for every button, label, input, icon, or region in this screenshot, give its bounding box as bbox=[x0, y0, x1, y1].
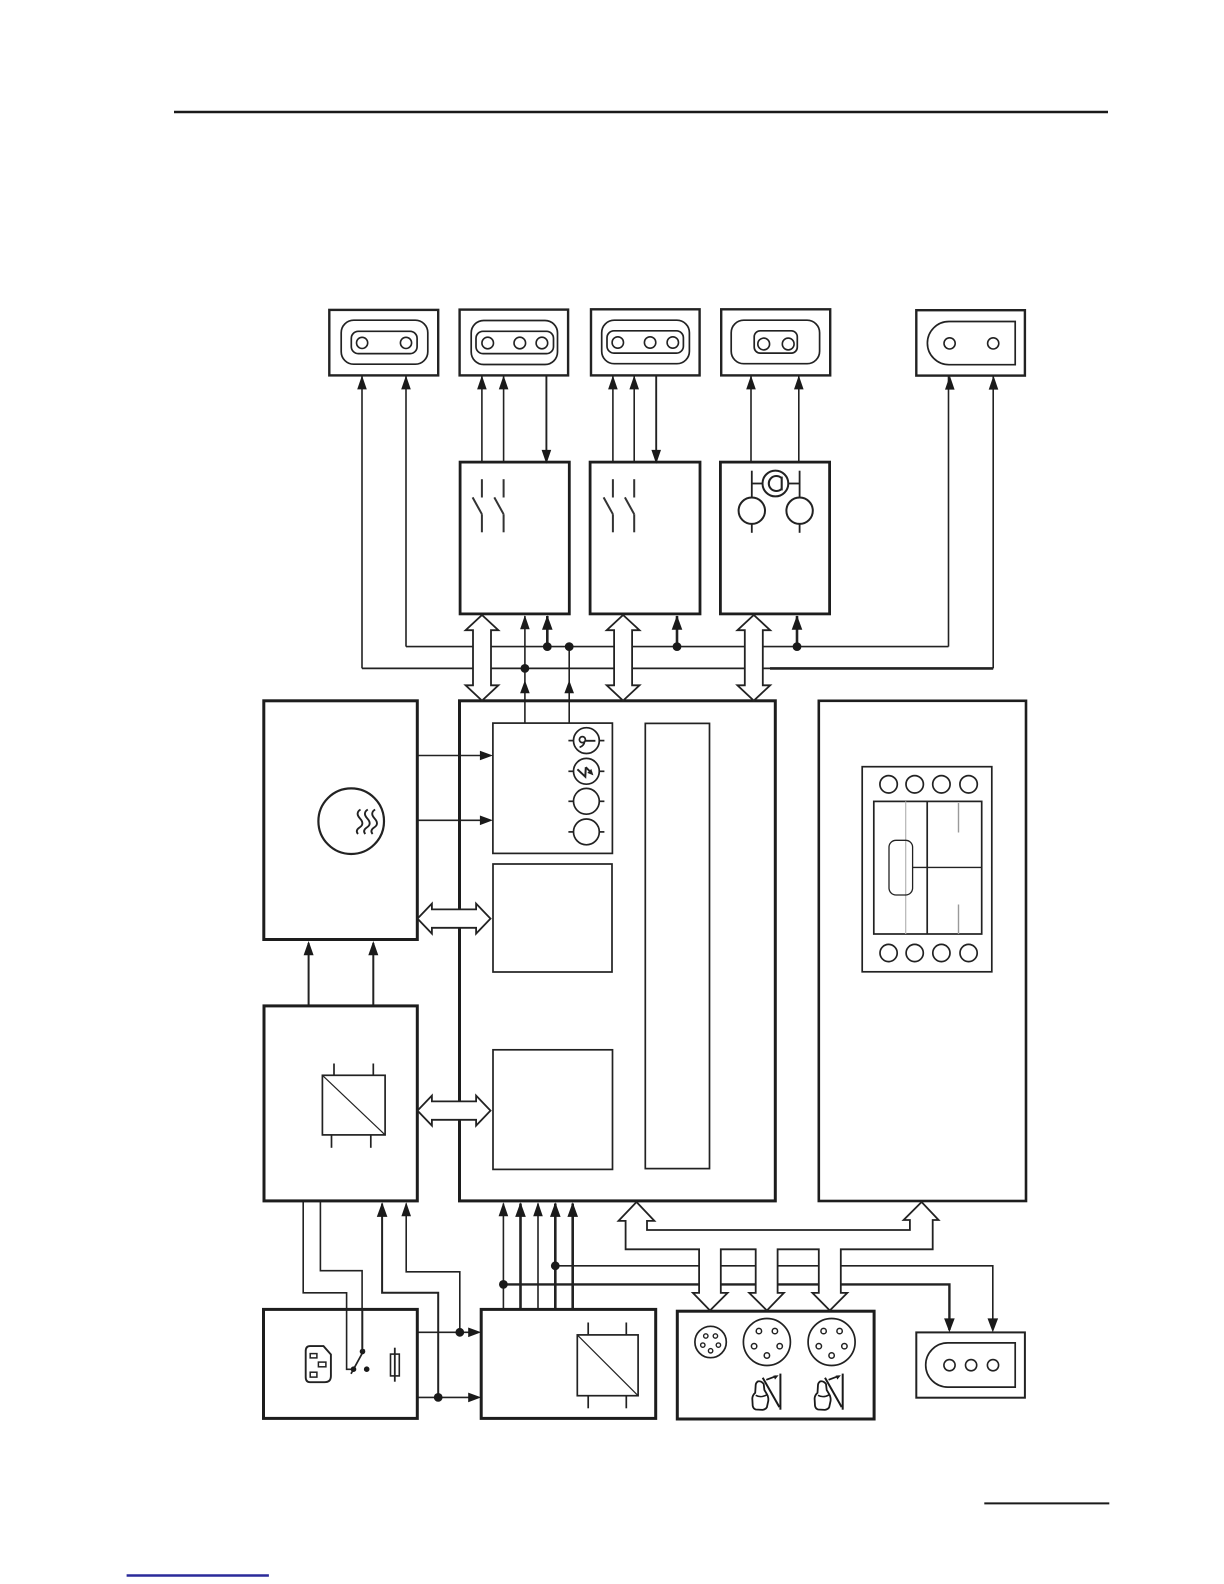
arrow into J4 pin 2 bbox=[794, 375, 804, 389]
bus line 1 bbox=[406, 646, 949, 648]
hollow arrow harness control board / interface / pedal sockets bbox=[619, 1202, 939, 1311]
junction dots bbox=[434, 642, 802, 1402]
node bus1 / relay B bbox=[673, 642, 682, 651]
node mains B branch bbox=[434, 1393, 443, 1402]
wire power supply to control board 5 bbox=[571, 1204, 574, 1310]
heater unit box bbox=[264, 701, 418, 940]
wire heater unit to control board input 1 bbox=[417, 755, 487, 757]
IEC inlet connector bbox=[306, 1346, 331, 1382]
DIN socket small bbox=[695, 1326, 726, 1357]
hollow arrow relay B / control board bbox=[607, 615, 640, 701]
processor column box bbox=[645, 723, 709, 1168]
transformer T1 bbox=[322, 1064, 385, 1148]
wire connector J1 right pin to bus 1 bbox=[405, 375, 407, 646]
arrow into J5 pin 1 bbox=[945, 376, 955, 390]
wire transformer box to heater unit 2 bbox=[372, 943, 374, 1006]
switch contact B1 bbox=[604, 479, 613, 532]
wire bus 1 to motor box C bbox=[796, 616, 799, 647]
transformer T2 bbox=[577, 1323, 638, 1409]
circuit breaker drawing bbox=[862, 767, 992, 972]
wire transformer box to mains switch line 1 bbox=[303, 1201, 351, 1369]
arrow into J2 pin 1 bbox=[477, 375, 487, 389]
arrow into J5 pin 2 bbox=[989, 376, 999, 390]
connector J4 bbox=[721, 309, 830, 375]
switch contact A1 bbox=[473, 479, 482, 532]
arrow into transformer box bottom bold bbox=[377, 1202, 388, 1217]
interface board box bbox=[819, 701, 1026, 1201]
mains inlet box bbox=[264, 1309, 418, 1418]
bus line 2 bbox=[362, 667, 770, 669]
arrow into J3 pin 2 bbox=[629, 375, 639, 389]
wire bus 1 to relay box B bbox=[676, 616, 679, 647]
motor M with rotation symbol bbox=[763, 471, 789, 497]
pedal icon 2 bbox=[815, 1374, 843, 1410]
wire mains feed to transformer box branch A bbox=[406, 1204, 460, 1333]
arrow into power supply line B bbox=[468, 1393, 481, 1403]
node bus1 / motor box bbox=[793, 642, 802, 651]
sensor circle spare 2 bbox=[568, 819, 604, 845]
arrow into sensor board input 2 bbox=[480, 816, 493, 826]
node bus1 / relay A bbox=[543, 642, 552, 651]
node bus2 / board line bbox=[521, 664, 530, 673]
arrow at bus2 sense left bbox=[520, 680, 530, 693]
lamp L1 bbox=[739, 471, 765, 533]
control board box bbox=[460, 701, 776, 1201]
connector J2 bbox=[460, 310, 568, 376]
wire bus 1 to relay box A pin 2 bbox=[546, 616, 549, 647]
connector J3 bbox=[591, 309, 700, 375]
motor box C bbox=[720, 462, 829, 614]
sensor circle defrost bbox=[568, 758, 604, 784]
memory sub-board bbox=[493, 864, 612, 972]
connector J1 bbox=[329, 310, 438, 376]
wire motor box C to connector J4 pin 2 bbox=[798, 375, 800, 462]
DIN socket right bbox=[808, 1319, 855, 1366]
arrow into relay A top bbox=[542, 450, 552, 464]
hollow arrow motor box / control board bbox=[737, 615, 770, 701]
arrow into control board bottom 4 bbox=[550, 1202, 561, 1217]
arrow into output connector left bbox=[944, 1318, 955, 1332]
wire control board to relay box A pin 1 bbox=[524, 616, 526, 723]
wire relay box B to connector J3 pin 1 bbox=[612, 375, 614, 462]
arrow into heater bottom 2 bbox=[368, 941, 378, 955]
arrow into motor box bottom bbox=[792, 615, 803, 630]
wire heater unit to control board input 2 bbox=[417, 819, 487, 821]
page footer line right bbox=[984, 1502, 1109, 1504]
arrow into relay B top bbox=[651, 450, 661, 464]
arrow into control board bottom 3 bbox=[533, 1202, 543, 1216]
sensor circle spare 1 bbox=[568, 788, 604, 814]
node mains A branch bbox=[455, 1328, 464, 1337]
wire mains feed to transformer box branch B bbox=[382, 1204, 438, 1398]
node bus1 / board sense bbox=[565, 642, 574, 651]
fuse F1 bbox=[391, 1348, 400, 1382]
arrow into transformer box bottom thin bbox=[401, 1202, 411, 1216]
wire motor box C to connector J4 pin 1 bbox=[750, 375, 752, 462]
arrow into J2 pin 2 bbox=[499, 375, 509, 389]
wire power supply to control board 4 bbox=[554, 1204, 557, 1310]
wire power supply to control board 1 bbox=[502, 1204, 504, 1310]
arrow into control board bottom 5 bbox=[567, 1202, 578, 1217]
relay box B bbox=[590, 462, 700, 614]
arrow into output connector right bbox=[988, 1318, 999, 1332]
arrow into J3 pin 1 bbox=[608, 375, 618, 389]
power supply box bbox=[481, 1309, 656, 1418]
relay box A bbox=[460, 462, 569, 614]
io sub-board bbox=[493, 1050, 613, 1170]
wire relay box B to connector J3 pin 2 bbox=[633, 375, 635, 462]
wire connector J2 pin 3 into relay box A bbox=[545, 375, 547, 462]
wire bus 2 to connector J5 right pin bbox=[992, 376, 994, 669]
wire mains line B to power supply bbox=[417, 1396, 477, 1398]
node supply branch right bbox=[551, 1261, 560, 1270]
arrow into relay A bottom 2 bbox=[542, 615, 553, 630]
arrow at bus2 sense right bbox=[564, 680, 574, 693]
wire transformer box to heater unit 1 bbox=[308, 943, 310, 1006]
wire connector J3 pin 3 into relay box B bbox=[655, 375, 657, 462]
arrow into relay B bottom bbox=[672, 615, 683, 630]
pedal icon 1 bbox=[752, 1374, 780, 1410]
switch contact A2 bbox=[494, 479, 503, 532]
lamp L2 bbox=[786, 471, 812, 533]
page header rule bbox=[174, 111, 1108, 114]
arrow into power supply line A bbox=[468, 1328, 481, 1338]
wire power supply to control board 3 bbox=[537, 1204, 539, 1310]
arrow into J1 pin 1 bbox=[357, 375, 367, 389]
heater symbol bbox=[318, 788, 384, 854]
arrow into control board bottom 1 bbox=[499, 1202, 509, 1216]
arrow into control board bottom 2 bbox=[515, 1202, 526, 1217]
transformer box bbox=[264, 1006, 417, 1201]
hollow arrow relay A / control board bbox=[466, 615, 499, 701]
wire bus 1 to connector J5 left pin bbox=[948, 376, 950, 647]
hollow arrow heater / memory board bbox=[418, 904, 491, 934]
arrow into sensor board input 1 bbox=[480, 751, 493, 761]
wire supply branch to output connector right pin bbox=[555, 1266, 993, 1330]
output connector box bbox=[916, 1332, 1025, 1397]
wire transformer box to mains switch line 2 bbox=[320, 1201, 362, 1352]
wire power supply to control board 2 bbox=[519, 1204, 522, 1310]
DIN socket middle bbox=[743, 1319, 790, 1366]
sensor circle temperature bbox=[568, 728, 604, 754]
wire relay box A to connector J2 pin 2 bbox=[503, 375, 505, 462]
connector J5 bbox=[916, 310, 1025, 375]
switch contact B2 bbox=[625, 479, 634, 532]
wire supply branch to output connector left pin bbox=[503, 1284, 949, 1330]
wire bus 1 to control board sense line bbox=[568, 647, 570, 724]
hollow arrow transformer box / io board bbox=[418, 1096, 491, 1126]
arrow into J4 pin 1 bbox=[746, 375, 756, 389]
pedal sockets box bbox=[677, 1311, 874, 1419]
arrow into relay A bottom 1 bbox=[520, 615, 530, 629]
wire connector J1 left pin to bus 2 bbox=[361, 375, 363, 668]
mains switch S1 bbox=[351, 1309, 370, 1373]
wire relay box A to connector J2 pin 1 bbox=[481, 375, 483, 462]
arrow into J1 pin 2 bbox=[401, 375, 411, 389]
node supply branch left bbox=[499, 1280, 508, 1289]
wire mains line A to power supply bbox=[417, 1331, 477, 1333]
page footer blue line left bbox=[127, 1574, 269, 1577]
sensor sub-board bbox=[493, 723, 613, 853]
arrow into heater bottom 1 bbox=[304, 941, 314, 955]
